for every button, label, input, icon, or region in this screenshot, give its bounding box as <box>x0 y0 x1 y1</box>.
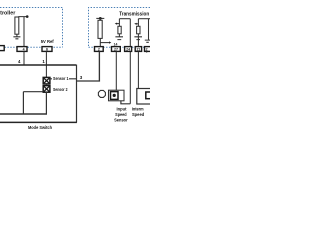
switch contact sensor2 <box>43 86 50 93</box>
svg-text:Sensor 2: Sensor 2 <box>53 87 68 92</box>
svg-text:Speed: Speed <box>115 112 127 117</box>
label Sensor 1 <box>52 76 69 81</box>
connector pin P2 <box>112 47 121 52</box>
svg-text:Sensor 1: Sensor 1 <box>53 76 69 81</box>
svg-text:Speed: Speed <box>132 112 144 117</box>
svg-text:2: 2 <box>98 48 100 52</box>
mode switch box right edge <box>76 65 78 123</box>
controller dashed box <box>0 8 63 48</box>
svg-text:Transmission: Transmission <box>119 11 149 17</box>
svg-text:24: 24 <box>126 48 130 52</box>
wire group2 top <box>138 18 150 20</box>
ground G3 <box>134 37 142 40</box>
ground G1 <box>13 37 20 39</box>
input speed sensor reluctor <box>98 90 105 97</box>
svg-text:5V Ref: 5V Ref <box>41 39 55 44</box>
resistor R3 (input speed sensor coil) <box>118 26 121 34</box>
connector pin C1 <box>17 47 27 52</box>
wire pin P1 to mode switch <box>76 51 99 81</box>
input speed sensor body <box>109 90 125 101</box>
connector pin P1 <box>95 47 104 52</box>
wire group1 top <box>119 18 130 20</box>
svg-text:14: 14 <box>114 42 118 46</box>
ground G4 (cropped) <box>145 40 150 42</box>
input sensor node dot <box>113 94 116 97</box>
intermediate sensor coil box <box>146 92 152 99</box>
wire pin P4 to intermediate sensor <box>137 51 139 88</box>
resistor R2 (transmission) top bar <box>96 17 104 19</box>
node R2 top dot <box>99 17 102 20</box>
wire arrow stub group2 <box>136 23 139 25</box>
transmission dashed box <box>89 8 151 48</box>
resistor R4 (intermediate speed sensor coil) <box>137 26 140 34</box>
svg-text:Mode Switch: Mode Switch <box>28 125 52 130</box>
svg-text:6: 6 <box>46 48 48 52</box>
svg-text:Interm: Interm <box>132 106 144 111</box>
wire sensor2 left drop <box>22 92 24 114</box>
wire arrow stub group1 <box>116 23 119 25</box>
wire pin P2 to input sensor <box>115 51 117 90</box>
wire R1 bottom <box>16 34 18 36</box>
sensor group1 left leg <box>118 19 120 27</box>
svg-text:21: 21 <box>136 48 140 52</box>
connector pin C2 5V Ref <box>42 47 52 52</box>
resistor R2 body <box>98 20 102 38</box>
wire between contacts <box>45 84 47 86</box>
wire pin P5 stub <box>146 51 148 52</box>
wire sensor2 input <box>23 91 43 93</box>
connector pin P4 <box>135 47 141 52</box>
ground G2 <box>115 37 123 40</box>
wire pin4 vertical <box>23 17 25 47</box>
wire group1 right leg <box>129 19 131 104</box>
node junction dot <box>26 15 29 18</box>
wire sensor2 bottom drop <box>45 92 47 114</box>
intermediate speed sensor body (cropped) <box>137 89 152 105</box>
svg-text:27: 27 <box>114 48 118 52</box>
wire bus to mode switch top <box>0 64 76 66</box>
svg-text:Sensor: Sensor <box>114 118 128 123</box>
sensor group2 left leg <box>137 19 139 47</box>
svg-text:2: 2 <box>146 48 148 52</box>
svg-text:4: 4 <box>23 48 25 52</box>
mode switch box bottom <box>0 121 77 123</box>
wire group2 right leg <box>148 19 150 40</box>
wire sensor1 output <box>50 78 76 80</box>
svg-text:Controller: Controller <box>0 11 15 17</box>
wire input sensor return <box>121 101 130 104</box>
wire branch arrow to net 14 <box>100 42 109 44</box>
input speed sensor coil box <box>111 92 119 100</box>
wire R2 stem to pin <box>99 18 101 46</box>
svg-text:Input: Input <box>117 106 127 111</box>
connector pin P5 (cropped) <box>145 47 153 52</box>
connector pin P3 <box>125 47 132 52</box>
wire pin4 below <box>23 51 25 64</box>
wire 5V Ref down to sensor 1 <box>45 51 47 77</box>
switch contact sensor1 <box>43 77 50 84</box>
wire R1 top to junction <box>18 16 27 18</box>
resistor R1 (controller pull-up) <box>15 17 19 34</box>
connector pin C0 (cropped) <box>0 46 4 51</box>
wire return bus <box>0 113 47 115</box>
